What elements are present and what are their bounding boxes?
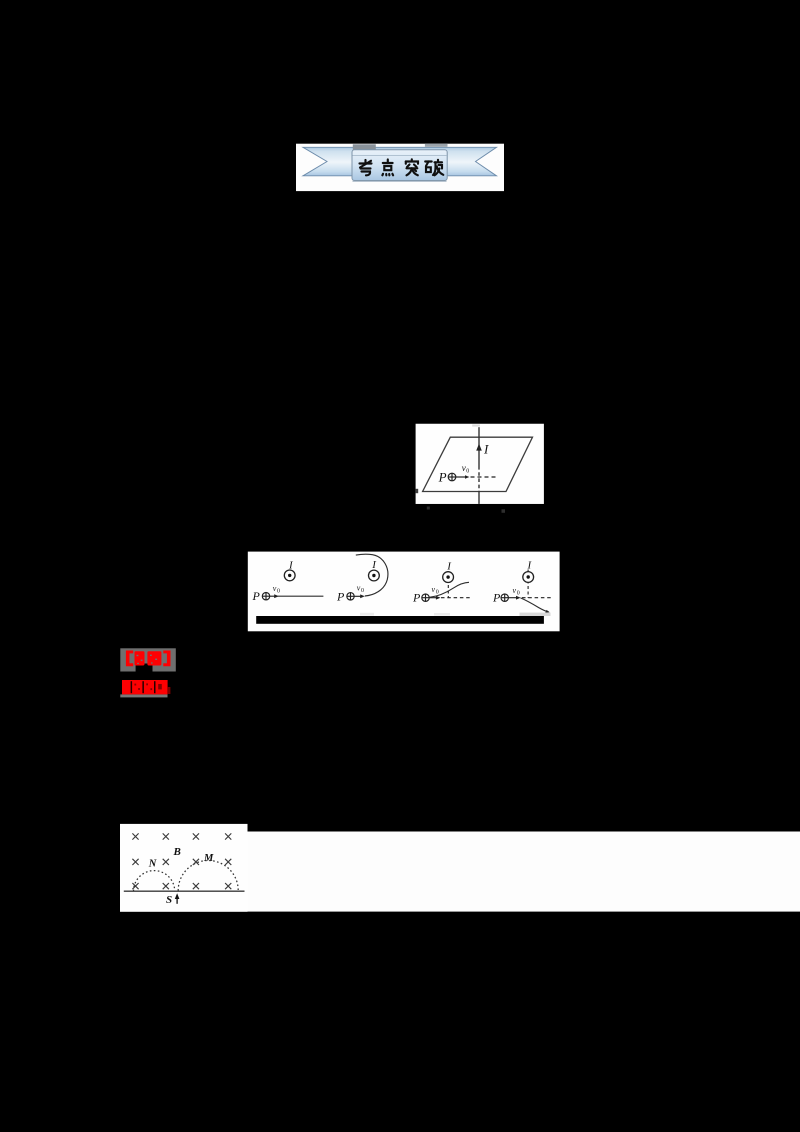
hidden-alpha white band bbox=[248, 832, 800, 912]
red glyph 案 bbox=[147, 651, 161, 665]
svg-text:M: M bbox=[203, 853, 214, 864]
velocity v0 arrow bbox=[456, 476, 467, 478]
C v0 arrow bbox=[429, 597, 437, 599]
D v0 arrow bbox=[508, 597, 517, 599]
A v0 arrow bbox=[270, 595, 276, 597]
dark red speck bbox=[168, 687, 171, 694]
field x symbols row 2 bbox=[132, 859, 231, 865]
A wire symbol (dot in circle) bbox=[284, 570, 295, 581]
option A: straight trajectory bbox=[252, 560, 324, 603]
field x symbols row 1 bbox=[132, 833, 231, 839]
red text body bbox=[122, 680, 168, 694]
svg-text:0: 0 bbox=[436, 589, 439, 595]
svg-text:I: I bbox=[483, 442, 489, 457]
red glyph 答 bbox=[135, 651, 145, 665]
banner white plate bbox=[296, 144, 504, 191]
velocity arrow at S bbox=[176, 897, 178, 904]
C wire symbol (dot in circle) bbox=[443, 572, 454, 583]
A charge ⊕ bbox=[262, 593, 269, 600]
option B: loop trajectory around wire bbox=[336, 554, 388, 603]
charge symbol ⊕ bbox=[448, 473, 456, 481]
options row figure bbox=[248, 552, 560, 632]
red bracket 【 bbox=[126, 651, 133, 667]
answer marker 【答案】 bbox=[120, 648, 176, 671]
svg-text:P: P bbox=[412, 590, 421, 604]
gray tick at wire top bbox=[472, 424, 480, 426]
svg-text:v: v bbox=[462, 463, 466, 473]
svg-text:N: N bbox=[148, 859, 157, 870]
C curved trajectory rising right bbox=[430, 582, 470, 597]
svg-text:P: P bbox=[336, 589, 345, 603]
scroll panel bbox=[352, 150, 447, 182]
C dashed vertical below wire bbox=[447, 585, 449, 598]
B charge ⊕ bbox=[347, 593, 354, 600]
dashed semicircle M bbox=[178, 861, 238, 892]
dashed trajectory line bbox=[471, 476, 499, 478]
ground line bbox=[124, 890, 245, 892]
option D: trajectory curving down away bbox=[492, 559, 551, 612]
D trajectory end arrow blob bbox=[545, 610, 549, 613]
scroll back tab left bbox=[353, 144, 376, 150]
faint speck below box right bbox=[502, 509, 506, 513]
D dashed vertical through wire bbox=[527, 570, 529, 598]
C charge ⊕ bbox=[422, 594, 429, 601]
banner title char 考 bbox=[360, 160, 372, 175]
D dashed horizontal bbox=[522, 597, 551, 599]
figure 3 white box bbox=[248, 552, 560, 632]
figure 2 white box bbox=[416, 424, 544, 504]
banner title char 点 bbox=[382, 160, 393, 176]
analysis marker 【解析】 bbox=[120, 680, 170, 697]
banner title char 突 bbox=[406, 159, 418, 175]
faint speck below box left bbox=[427, 507, 430, 510]
magnetic field figure bbox=[120, 824, 800, 912]
figure: charged particle entering field of straight current (plane view) bbox=[416, 424, 544, 513]
wire: solid lower segment bbox=[478, 492, 480, 504]
redacted option labels bar bbox=[256, 616, 544, 624]
svg-text:B: B bbox=[173, 846, 181, 858]
B v0 arrow bbox=[354, 595, 361, 597]
ribbon band with swallowtail ends bbox=[303, 147, 497, 176]
option C: trajectory curving up toward wire bbox=[412, 560, 470, 604]
wire: dashed middle segment bbox=[478, 466, 480, 492]
plane parallelogram bbox=[423, 437, 533, 491]
gray smudges above redaction bar bbox=[520, 613, 551, 616]
svg-text:S: S bbox=[166, 894, 172, 906]
notch in gray background bbox=[136, 664, 153, 672]
figure 4 white box bbox=[120, 824, 248, 912]
wire: current arrowhead up bbox=[476, 444, 482, 451]
svg-text:P: P bbox=[252, 589, 261, 603]
dark glyph gaps bbox=[131, 681, 156, 693]
A straight trajectory bbox=[278, 595, 324, 597]
speck on box edge bbox=[416, 489, 419, 493]
field x symbols row 3 bbox=[132, 883, 231, 889]
svg-text:0: 0 bbox=[517, 590, 520, 596]
internal dark specks bbox=[134, 683, 161, 690]
svg-text:P: P bbox=[438, 470, 447, 485]
C dashed horizontal bbox=[441, 597, 470, 599]
D curved trajectory descending bbox=[521, 598, 549, 612]
svg-text:0: 0 bbox=[466, 468, 469, 474]
gray strip under text bbox=[120, 694, 167, 697]
B wire symbol (dot in circle) bbox=[369, 570, 380, 581]
svg-text:P: P bbox=[492, 590, 501, 604]
red bracket 】 bbox=[163, 651, 170, 667]
B curved trajectory looping over wire bbox=[356, 554, 388, 596]
D wire symbol (dot in circle) bbox=[523, 572, 534, 583]
banner title char 破 bbox=[425, 160, 443, 176]
selection gray background bbox=[120, 648, 176, 671]
D charge ⊕ bbox=[501, 594, 508, 601]
wire: solid upper segment bbox=[478, 427, 480, 466]
svg-text:0: 0 bbox=[277, 588, 280, 594]
scroll back tab right bbox=[425, 144, 448, 147]
svg-text:0: 0 bbox=[361, 588, 364, 594]
dashed semicircle N bbox=[134, 871, 175, 892]
